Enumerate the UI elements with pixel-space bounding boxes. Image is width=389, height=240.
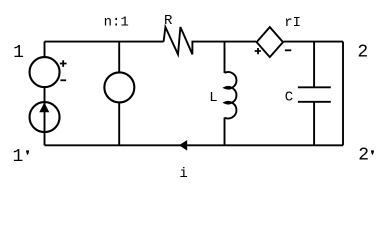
svg-text:i: i bbox=[179, 166, 187, 182]
svg-text:n:1: n:1 bbox=[104, 15, 129, 31]
svg-text:R: R bbox=[164, 13, 173, 29]
svg-text:rI: rI bbox=[284, 15, 301, 31]
svg-text:L: L bbox=[209, 90, 217, 106]
svg-text:2: 2 bbox=[358, 146, 369, 166]
svg-text:C: C bbox=[285, 89, 293, 105]
svg-text:2: 2 bbox=[357, 43, 368, 63]
svg-text:1: 1 bbox=[13, 147, 24, 167]
svg-text:1: 1 bbox=[13, 43, 24, 63]
